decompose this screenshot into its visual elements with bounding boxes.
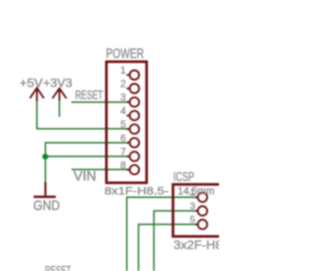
svg-text:2: 2 [120, 79, 126, 90]
svg-text:8x1F-H8.5-: 8x1F-H8.5- [104, 185, 168, 197]
svg-text:5: 5 [120, 120, 126, 131]
svg-text:1: 1 [120, 66, 126, 77]
svg-text:3: 3 [190, 201, 195, 212]
svg-text:7: 7 [120, 147, 126, 158]
svg-text:RESET: RESET [45, 264, 71, 271]
svg-text:+3V3: +3V3 [43, 76, 72, 90]
svg-text:3x2F-H8: 3x2F-H8 [174, 238, 220, 252]
svg-text:3: 3 [120, 93, 126, 104]
svg-text:VIN: VIN [74, 168, 97, 184]
svg-text:5: 5 [190, 215, 195, 226]
svg-text:ICSP: ICSP [173, 169, 194, 184]
svg-text:8: 8 [120, 160, 126, 171]
svg-text:14.5mm: 14.5mm [178, 185, 215, 197]
svg-text:POWER: POWER [106, 46, 144, 61]
svg-text:GND: GND [33, 198, 60, 213]
svg-text:+5V: +5V [20, 76, 44, 90]
svg-text:6: 6 [120, 133, 126, 144]
svg-text:1: 1 [190, 188, 195, 199]
svg-text:4: 4 [120, 106, 126, 117]
svg-text:RESET: RESET [75, 88, 103, 102]
